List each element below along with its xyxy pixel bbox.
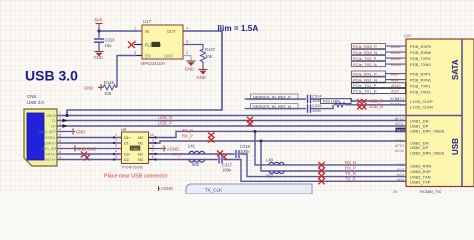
ground cluster GND_DRAIN <box>74 146 76 152</box>
svg-text:L40: L40 <box>266 158 274 163</box>
svg-text:AF14: AF14 <box>395 103 404 107</box>
svg-text:10K: 10K <box>104 91 112 96</box>
svg-text:PCB_RXP0: PCB_RXP0 <box>410 44 432 49</box>
svg-text:PCIe_RX0_N: PCIe_RX0_N <box>353 50 377 55</box>
svg-text:TX_P: TX_P <box>345 176 356 181</box>
svg-text:7: 7 <box>152 150 154 154</box>
svg-text:NC: NC <box>138 136 144 140</box>
svg-text:GND_DR: GND_DR <box>41 147 57 151</box>
svg-text:GND: GND <box>76 130 85 135</box>
pin stub IN <box>138 30 142 32</box>
svg-text:USB3_RXN: USB3_RXN <box>410 164 431 169</box>
svg-text:GND_DET: GND_DET <box>39 130 57 134</box>
svg-text:PCIe_RX0_P: PCIe_RX0_P <box>353 44 377 49</box>
arrow marker D+ <box>63 124 68 128</box>
junction VBUS/OUT <box>65 114 68 117</box>
wire SSRX+ to USB2_DN row <box>57 141 406 143</box>
svg-text:PCB_TXN1: PCB_TXN1 <box>410 90 431 95</box>
svg-text:U17: U17 <box>143 19 152 24</box>
resistor R145 <box>101 85 117 90</box>
svg-text:RX_N: RX_N <box>182 128 193 133</box>
svg-text:1: 1 <box>59 111 61 115</box>
svg-text:L1CB_CLKP: L1CB_CLKP <box>410 99 433 104</box>
PCIe pad numbers <box>391 45 401 95</box>
svg-text:AH10: AH10 <box>391 84 401 88</box>
pin names CN8 <box>39 114 57 162</box>
label box R34 100R <box>321 99 352 104</box>
svg-text:USB3_RXP: USB3_RXP <box>410 169 431 174</box>
svg-text:SERDES_IN_REF_P: SERDES_IN_REF_P <box>253 95 291 100</box>
IC U17 power switch MP62341DH <box>142 25 183 59</box>
svg-text:GND: GND <box>87 146 96 151</box>
highlighted pin number AD07 (USB1_DRV_VBUS) <box>396 128 407 133</box>
svg-text:D2+: D2+ <box>124 153 131 157</box>
svg-text:PCIe_TX0_P: PCIe_TX0_P <box>353 56 377 61</box>
svg-text:8: 8 <box>152 144 154 148</box>
svg-text:AH13: AH13 <box>391 57 401 61</box>
svg-text:RCMBI_TIC: RCMBI_TIC <box>420 189 442 194</box>
svg-text:AH9: AH9 <box>391 73 398 77</box>
wire VBUS drop at right <box>461 39 463 186</box>
svg-text:USB2_DRV_VBUS: USB2_DRV_VBUS <box>410 150 444 155</box>
power port AGND <box>164 146 166 152</box>
no-ERC X pair on TX after choke <box>217 151 223 157</box>
wire SSTX+ <box>57 160 406 182</box>
svg-text:USB1_DRV_VBUS: USB1_DRV_VBUS <box>410 129 444 134</box>
svg-text:NC: NC <box>138 158 144 162</box>
PCIe net label ports <box>353 44 377 95</box>
svg-text:PCB_RXN1: PCB_RXN1 <box>410 78 432 83</box>
svg-text:GND: GND <box>164 54 173 59</box>
power port GND left of R145 <box>98 84 101 90</box>
svg-text:AF13: AF13 <box>395 139 404 143</box>
svg-text:4: 4 <box>115 150 117 154</box>
svg-text:26: 26 <box>393 190 397 194</box>
wire USB_N <box>57 120 406 122</box>
junction RXN drop <box>254 130 257 133</box>
wire USB_P <box>57 125 406 127</box>
svg-text:NC: NC <box>138 142 144 146</box>
svg-text:RX_P: RX_P <box>182 134 193 139</box>
svg-text:AG4: AG4 <box>396 173 404 177</box>
svg-text:AH12: AH12 <box>391 45 401 49</box>
svg-text:GND: GND <box>197 75 206 80</box>
svg-text:TPD4E05U06: TPD4E05U06 <box>121 166 143 170</box>
wire GND_DET to GND <box>57 131 72 133</box>
ground below GND pin <box>187 61 196 66</box>
svg-text:AE10: AE10 <box>395 117 404 121</box>
SoC pin names <box>410 44 444 185</box>
svg-text:100n: 100n <box>222 168 232 173</box>
svg-text:USB3_TXP: USB3_TXP <box>410 180 431 185</box>
svg-text:PCB_TXP0: PCB_TXP0 <box>410 56 431 61</box>
svg-text:AF13: AF13 <box>395 97 404 101</box>
wire SSRX- to USB1_DRV_VBUS row <box>57 131 406 137</box>
svg-text:5V0: 5V0 <box>95 18 103 23</box>
svg-text:D2-: D2- <box>124 158 131 162</box>
svg-text:AG9: AG9 <box>391 90 399 94</box>
svg-text:AG12: AG12 <box>391 51 401 55</box>
svg-text:SATA: SATA <box>451 59 460 80</box>
arrow marker D- <box>63 119 68 123</box>
PCIe stub wires <box>386 46 407 92</box>
svg-text:PCB_TXP1: PCB_TXP1 <box>410 84 431 89</box>
capacitor C313 <box>94 31 104 51</box>
svg-text:PCIe_RX1_P: PCIe_RX1_P <box>353 72 377 77</box>
wire EN pulldown <box>117 56 136 88</box>
svg-text:AG3: AG3 <box>396 163 404 167</box>
wire drop to USB3_RXP <box>261 141 406 171</box>
no-ERC X column on USB3 pairs <box>318 162 325 168</box>
no-ERC X pair on XOB_P <box>357 99 362 104</box>
net label SERDES_IN_REF_P <box>251 94 299 99</box>
svg-text:PCB_RXN0: PCB_RXN0 <box>410 50 432 55</box>
SoC pin numbers <box>395 97 404 182</box>
svg-text:RX_N: RX_N <box>345 160 356 165</box>
svg-text:PCIe_TX0_N: PCIe_TX0_N <box>353 62 377 67</box>
svg-text:Ilim = 1.5A: Ilim = 1.5A <box>218 24 259 33</box>
svg-text:GND: GND <box>94 55 103 60</box>
wire SERDES N <box>245 108 306 110</box>
wire C314 to pin L1CB_CLKP <box>311 99 407 101</box>
svg-text:IN: IN <box>145 29 149 34</box>
no-ERC X pair near GND_DRAIN <box>81 152 87 158</box>
ESD protector U9 TPD4E05U06 <box>122 132 149 164</box>
inductor L41 common-mode choke <box>189 151 205 162</box>
wire C315 to R34 riser <box>311 105 334 109</box>
no-ERC X pair on USB_N/USB_P <box>247 117 253 123</box>
white label box PCIe_TX1_P <box>352 83 406 88</box>
svg-text:D1+: D1+ <box>124 136 131 140</box>
svg-text:TX_P: TX_P <box>173 152 183 157</box>
connector tongue (blue) <box>27 113 44 160</box>
svg-text:10K: 10K <box>205 54 213 59</box>
svg-text:100n: 100n <box>240 149 250 154</box>
wire R34 to pin L1CB_CLKN <box>346 104 406 106</box>
harness box TX_CLK <box>186 184 312 194</box>
wire 5V0 to IN <box>99 30 138 32</box>
svg-text:SSTX-: SSTX- <box>45 153 56 157</box>
svg-text:U9: U9 <box>121 127 127 132</box>
svg-text:R147: R147 <box>205 47 216 52</box>
svg-text:GND: GND <box>131 147 139 151</box>
svg-text:SSRX+: SSRX+ <box>44 142 56 146</box>
U9 right stubs <box>149 138 156 160</box>
svg-text:2: 2 <box>115 139 117 143</box>
svg-text:AG8: AG8 <box>391 79 399 83</box>
pin stub FLG <box>134 44 142 46</box>
svg-text:5: 5 <box>115 155 117 159</box>
svg-text:GND: GND <box>84 85 93 90</box>
svg-text:EN: EN <box>145 54 151 59</box>
wire R147 to GND <box>202 63 204 69</box>
svg-text:TX_CLK: TX_CLK <box>205 187 222 192</box>
svg-text:USB1_DP: USB1_DP <box>410 123 429 128</box>
wire drop to USB3_RXN <box>255 131 406 165</box>
svg-text:TX_N: TX_N <box>345 171 356 176</box>
svg-text:C313: C313 <box>105 37 116 42</box>
svg-text:D+: D+ <box>51 125 56 129</box>
pin numbers CN8 <box>59 111 61 160</box>
svg-text:GND: GND <box>77 146 86 151</box>
capacitor C315 <box>308 104 311 112</box>
net label SERDES_IN_REF_N <box>251 104 299 109</box>
ground GND below C313 <box>95 52 104 57</box>
svg-text:SSRX-: SSRX- <box>45 136 57 140</box>
svg-text:L41: L41 <box>188 143 196 148</box>
svg-text:OUT: OUT <box>167 29 176 34</box>
svg-text:AH4: AH4 <box>397 178 404 182</box>
svg-text:RX_P: RX_P <box>345 166 356 171</box>
svg-text:L1CB_CLKN: L1CB_CLKN <box>410 105 433 110</box>
label AGND bottom <box>159 186 161 191</box>
inductor L40 common-mode choke <box>269 162 284 173</box>
svg-text:U20: U20 <box>404 33 412 38</box>
svg-text:XOB_N: XOB_N <box>369 104 383 109</box>
IC U20 SoC block <box>406 39 474 187</box>
white label box PCIe_TX1_N <box>352 89 406 94</box>
wire OUT <box>67 31 222 116</box>
svg-text:AE11: AE11 <box>395 122 404 126</box>
svg-text:AG13: AG13 <box>391 63 401 67</box>
power port GND (GND_DET) <box>73 129 75 135</box>
svg-text:USB: USB <box>451 138 460 155</box>
svg-text:VBUS: VBUS <box>46 114 56 118</box>
power port 5V0 <box>96 24 103 32</box>
no-ERC X pair on XOB_N <box>357 105 362 110</box>
svg-text:MP62341DH: MP62341DH <box>141 61 165 66</box>
junction dots U9 left pins <box>113 136 115 138</box>
svg-text:AF12: AF12 <box>395 144 404 148</box>
wire VBUS into block <box>406 115 462 117</box>
svg-text:D1-: D1- <box>124 142 131 146</box>
svg-text:SERDES_IN_REF_N: SERDES_IN_REF_N <box>253 104 291 109</box>
svg-text:SSTX+: SSTX+ <box>45 158 57 162</box>
svg-text:Place near USB connector: Place near USB connector <box>104 173 168 179</box>
pin stub EN <box>136 55 142 57</box>
resistor R34 <box>334 103 346 108</box>
svg-text:USB 3.0: USB 3.0 <box>25 68 78 84</box>
svg-text:90Z: 90Z <box>192 162 200 167</box>
capacitor C314 <box>308 95 311 103</box>
wire GND pin stub <box>183 56 191 61</box>
svg-text:PCIe_TX1_P: PCIe_TX1_P <box>353 83 377 88</box>
svg-text:XOB_P: XOB_P <box>369 99 383 104</box>
svg-text:3: 3 <box>115 144 117 148</box>
capacitor C316 series <box>236 150 239 158</box>
svg-text:USB 3.0: USB 3.0 <box>27 100 44 105</box>
svg-text:GND: GND <box>185 67 194 72</box>
junction RXP drop <box>260 140 263 143</box>
svg-text:ILIM: ILIM <box>153 43 162 48</box>
resistor R147 <box>201 48 206 63</box>
svg-text:USB_N: USB_N <box>158 115 172 120</box>
wire VBUS long <box>57 115 461 117</box>
svg-text:10u: 10u <box>105 43 113 48</box>
svg-text:6: 6 <box>152 155 154 159</box>
capacitor C317 series <box>219 156 222 164</box>
svg-text:AH3: AH3 <box>397 168 404 172</box>
wire ILIM to R147 <box>183 45 203 49</box>
svg-text:AC11: AC11 <box>395 149 404 153</box>
no-ERC X pair on RX <box>208 133 215 139</box>
ground below R147 <box>199 70 208 75</box>
svg-text:PCIe_RX1_N: PCIe_RX1_N <box>353 78 377 83</box>
svg-text:AD07: AD07 <box>397 128 407 132</box>
svg-text:1: 1 <box>115 133 117 137</box>
svg-text:CN8: CN8 <box>27 94 36 99</box>
svg-text:9: 9 <box>152 139 154 143</box>
svg-text:NC: NC <box>138 153 144 157</box>
svg-text:10: 10 <box>150 133 154 137</box>
svg-text:PCIe_TX1_N: PCIe_TX1_N <box>353 89 377 94</box>
no-ERC X on FLG <box>128 42 135 49</box>
svg-text:PCB_RXP1: PCB_RXP1 <box>410 72 432 77</box>
wire SERDES P <box>245 98 306 100</box>
svg-text:PCB_TXN0: PCB_TXN0 <box>410 62 431 67</box>
wire SSTX- <box>57 154 406 177</box>
svg-text:AGND: AGND <box>161 186 173 191</box>
wire GND_DRAIN to AGND <box>57 148 163 150</box>
svg-text:USB2_DP: USB2_DP <box>410 145 429 150</box>
junction 5V0/C313 <box>97 29 100 32</box>
svg-text:R145: R145 <box>104 80 115 85</box>
svg-text:USB_P: USB_P <box>158 121 172 126</box>
svg-text:R34 100R: R34 100R <box>323 100 340 104</box>
